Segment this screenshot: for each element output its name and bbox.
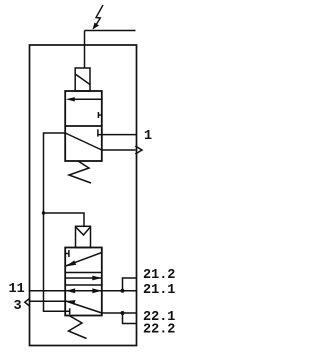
branch wire 22.2: [123, 313, 137, 324]
pilot branch wire: [44, 213, 85, 226]
arrowhead right on line D: [92, 288, 102, 293]
V1 flow arrow left: [74, 98, 102, 100]
V2 spring: [69, 316, 87, 339]
open arrow outlet: [102, 149, 136, 151]
valve V2 body: [65, 248, 102, 316]
wire vertical to solenoid: [84, 31, 86, 69]
svg-text:3: 3: [14, 299, 22, 314]
junction dot 21: [121, 289, 125, 293]
V2 blocked port T4: [65, 308, 70, 314]
V1 diagonal flow path: [65, 133, 102, 150]
V2 line A: [65, 272, 102, 274]
port 3 line: [30, 300, 66, 302]
svg-text:21.1: 21.1: [143, 283, 175, 298]
port 1 line: [102, 134, 137, 136]
V2 diagonal top with arrow: [66, 253, 102, 266]
solenoid lightning bolt: [93, 5, 104, 30]
exhaust open arrow 3: [25, 298, 30, 306]
svg-text:22.2: 22.2: [143, 323, 175, 338]
solenoid box U1: [75, 68, 90, 91]
branch wire 21.2: [123, 278, 137, 291]
pilot check V: [76, 227, 90, 235]
left pipe from V1: [44, 133, 66, 311]
svg-text:1: 1: [144, 129, 152, 144]
V1 spring: [69, 161, 91, 183]
junction dot pilot branch: [42, 211, 45, 214]
arrowhead left on line D: [66, 288, 76, 293]
V2 diagonal bottom with arrow: [66, 301, 102, 313]
V2 flow arrow B right: [65, 277, 102, 279]
valve V1 body: [65, 91, 102, 161]
svg-text:11: 11: [9, 282, 25, 297]
junction dot 22: [121, 311, 125, 315]
coil wire horizontal: [85, 30, 136, 32]
pilot box V2: [76, 226, 91, 247]
enclosure border: [30, 45, 137, 346]
V2 blocked port T3: [65, 250, 69, 257]
wire to 22.1: [102, 312, 137, 314]
svg-text:21.2: 21.2: [143, 268, 175, 283]
wire to 21.1: [102, 290, 137, 292]
port 11 line through valve: [30, 290, 102, 292]
valve V1 divider: [65, 125, 102, 127]
solenoid diagonal: [75, 74, 90, 85]
V2 line C: [65, 284, 102, 286]
V1 blocked port T2: [98, 129, 102, 136]
V1 blocked port T1: [98, 112, 101, 118]
